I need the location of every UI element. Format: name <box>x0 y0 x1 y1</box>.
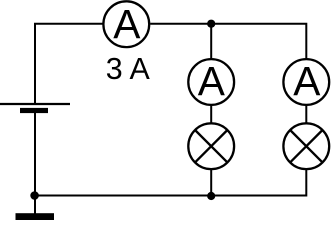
ammeter A1 (branch 1) <box>188 58 234 105</box>
ammeter A2 (branch 2) <box>283 58 329 105</box>
svg-text:A: A <box>293 58 321 104</box>
node: bottom junction of branch 1 <box>207 192 215 200</box>
ground <box>16 213 55 220</box>
battery BT1: short thick negative plate <box>20 108 48 113</box>
svg-text:3 A: 3 A <box>106 51 150 86</box>
wire: battery - down to bottom-left junction <box>34 113 36 196</box>
wire: top junction down to ammeter A1 <box>210 24 212 60</box>
wire: A1 to lamp L1 <box>210 105 212 123</box>
svg-text:A: A <box>113 1 141 47</box>
wire: bottom rail <box>35 195 307 197</box>
wire: A2 to lamp L2 <box>305 105 307 123</box>
svg-text:A: A <box>198 58 226 104</box>
wire: top-left corner segment (battery + to main ammeter) <box>35 24 103 104</box>
node: bottom-left junction <box>30 191 39 200</box>
wire: lamp L2 to bottom-right corner <box>305 169 307 196</box>
wire: lamp L1 to bottom rail <box>210 169 212 196</box>
wire: main ammeter to top-right corner, down to ammeter A2 <box>150 24 306 60</box>
wire: junction down to ground <box>34 196 36 215</box>
battery BT1: long thin positive plate <box>0 103 70 105</box>
ammeter U1 (main, reads 3 A) <box>103 1 149 47</box>
node: top junction of branch 1 <box>207 20 215 28</box>
lamp L2 <box>283 123 329 169</box>
lamp L1 <box>188 123 234 169</box>
